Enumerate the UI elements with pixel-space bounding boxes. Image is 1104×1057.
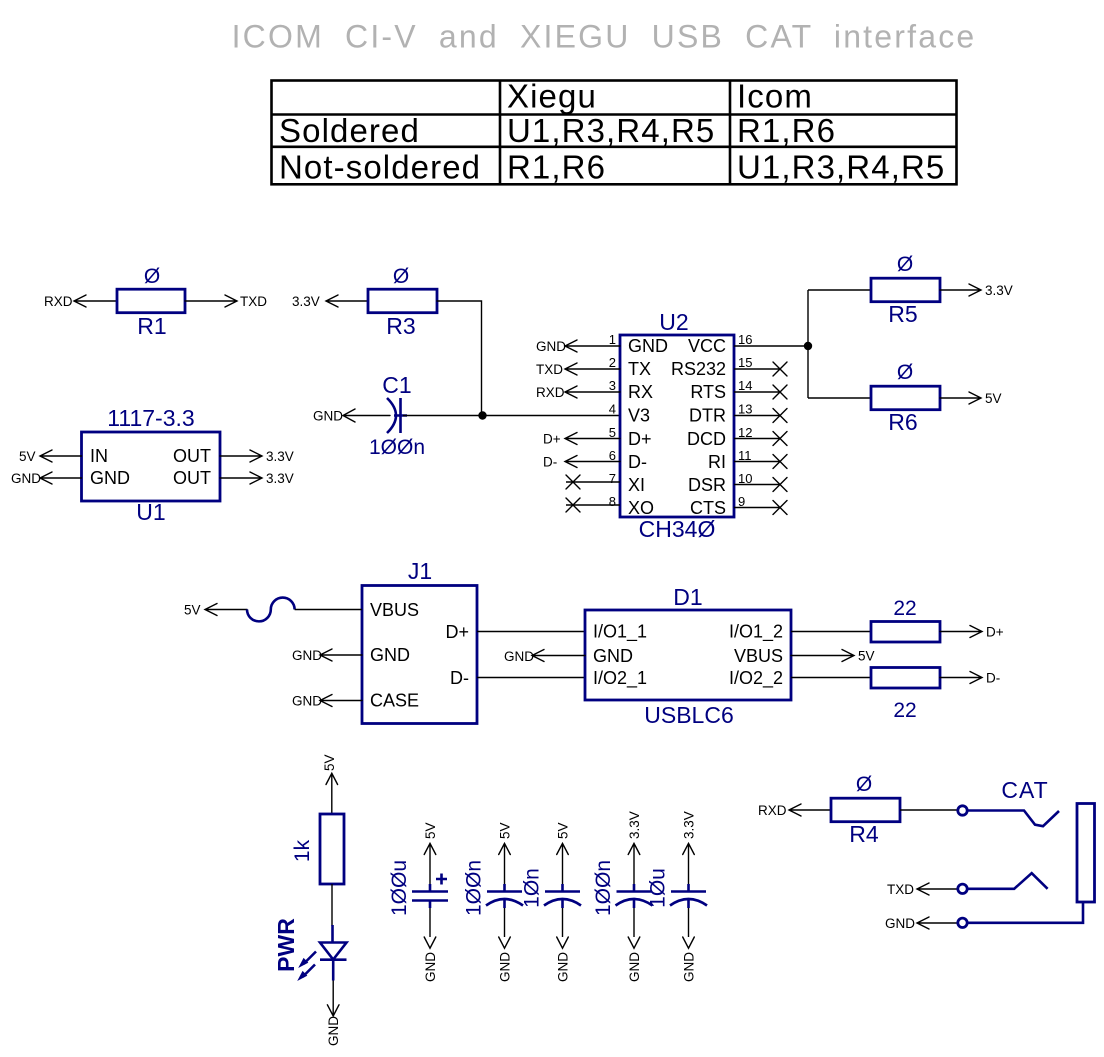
svg-text:4: 4	[609, 402, 616, 417]
resistor R4	[831, 798, 900, 822]
wire	[566, 481, 620, 483]
tip contact	[967, 811, 1059, 827]
svg-text:U1,R3,R4,R5: U1,R3,R4,R5	[737, 149, 945, 186]
svg-text:GND: GND	[681, 952, 696, 982]
svg-text:8: 8	[609, 494, 616, 509]
svg-text:6: 6	[609, 448, 616, 463]
wire	[483, 415, 621, 417]
wire	[562, 908, 564, 937]
wire	[403, 415, 483, 417]
svg-text:XO: XO	[628, 498, 654, 518]
svg-text:3.3V: 3.3V	[266, 449, 294, 464]
svg-text:5V: 5V	[985, 391, 1002, 406]
svg-text:RI: RI	[708, 452, 726, 472]
svg-text:13: 13	[738, 402, 752, 417]
svg-text:GND: GND	[326, 1016, 341, 1046]
wire VCC pin16	[734, 345, 808, 347]
svg-text:1ØØu: 1ØØu	[388, 860, 411, 916]
svg-text:R1: R1	[137, 313, 166, 339]
wire	[437, 301, 482, 416]
wire	[40, 472, 82, 484]
wire	[326, 295, 368, 307]
no-connect pin12	[773, 432, 787, 446]
svg-text:OUT: OUT	[173, 446, 211, 466]
svg-text:RXD: RXD	[536, 385, 565, 400]
ground arrow down	[683, 937, 695, 948]
svg-text:16: 16	[738, 332, 752, 347]
svg-text:GND: GND	[628, 336, 668, 356]
power arrow up	[628, 843, 640, 884]
sleeve contact	[967, 902, 1083, 923]
svg-text:GND: GND	[555, 952, 570, 982]
svg-text:D-: D-	[986, 671, 1000, 686]
svg-text:D-: D-	[450, 668, 469, 688]
wire	[205, 604, 247, 616]
svg-text:CAT: CAT	[1001, 777, 1048, 803]
svg-text:R1,R6: R1,R6	[737, 112, 836, 149]
svg-text:Ø: Ø	[897, 253, 913, 276]
svg-text:OUT: OUT	[173, 468, 211, 488]
svg-text:5V: 5V	[858, 649, 875, 664]
svg-text:CASE: CASE	[370, 691, 419, 711]
svg-text:VBUS: VBUS	[734, 646, 783, 666]
svg-text:RS232: RS232	[671, 359, 726, 379]
IC U2 CH340	[620, 335, 734, 517]
svg-text:R3: R3	[386, 313, 415, 339]
svg-text:GND: GND	[292, 648, 322, 663]
regulator U1 1117-3.3	[82, 432, 221, 501]
svg-text:GND: GND	[90, 468, 130, 488]
svg-text:1117-3.3: 1117-3.3	[107, 405, 194, 431]
wire	[940, 672, 982, 684]
connector J1	[362, 586, 477, 724]
pin circle tip	[958, 806, 967, 815]
wire I/O1_2 to R	[791, 631, 871, 633]
svg-text:GND: GND	[11, 471, 41, 486]
svg-text:5V: 5V	[555, 822, 570, 839]
wire D- J1 to D1	[477, 677, 585, 679]
svg-text:5V: 5V	[423, 822, 438, 839]
svg-text:R5: R5	[888, 301, 917, 327]
svg-text:1k: 1k	[291, 839, 314, 862]
ground arrow down	[499, 937, 511, 948]
svg-text:TXD: TXD	[240, 294, 267, 309]
svg-text:RXD: RXD	[44, 294, 73, 309]
power arrow up	[326, 773, 338, 814]
resistor 1k	[320, 814, 344, 884]
svg-text:D-: D-	[543, 455, 557, 470]
ground arrow down	[327, 1005, 339, 1016]
svg-text:XI: XI	[628, 475, 645, 495]
svg-text:VBUS: VBUS	[370, 600, 419, 620]
svg-text:Soldered: Soldered	[279, 112, 420, 149]
resistor R1	[117, 289, 185, 313]
wire	[734, 368, 780, 370]
svg-text:CH34Ø: CH34Ø	[639, 516, 716, 542]
svg-text:DTR: DTR	[689, 406, 726, 426]
wire VBUS to 5V	[791, 650, 854, 662]
svg-text:15: 15	[738, 355, 752, 370]
table: soldered parts matrix	[272, 78, 957, 186]
svg-text:GND: GND	[504, 649, 534, 664]
wire	[220, 450, 262, 462]
wire	[917, 917, 957, 929]
svg-text:GND: GND	[497, 952, 512, 982]
wire	[565, 386, 620, 398]
wire	[734, 461, 780, 463]
svg-text:GND: GND	[313, 409, 343, 424]
svg-text:D+: D+	[628, 429, 652, 449]
svg-text:U1: U1	[136, 499, 165, 525]
svg-text:3.3V: 3.3V	[681, 811, 696, 839]
wire	[688, 908, 690, 937]
svg-text:GND: GND	[627, 952, 642, 982]
capacitor 100u	[412, 874, 448, 909]
wire	[40, 450, 82, 462]
wire	[185, 295, 237, 307]
wire	[332, 981, 334, 1017]
svg-text:GND: GND	[370, 645, 410, 665]
wire	[565, 363, 620, 375]
svg-text:9: 9	[738, 494, 745, 509]
wire	[917, 883, 957, 895]
svg-text:DCD: DCD	[687, 429, 726, 449]
svg-text:I/O2_1: I/O2_1	[593, 668, 647, 689]
ground arrow down	[628, 937, 640, 948]
svg-text:RXD: RXD	[758, 803, 787, 818]
ground arrow down	[424, 937, 436, 948]
svg-text:3.3V: 3.3V	[985, 283, 1013, 298]
svg-text:D-: D-	[628, 452, 647, 472]
junction VCC	[804, 342, 812, 350]
capacitor 10n	[544, 884, 581, 908]
wire	[633, 908, 635, 937]
wire	[343, 409, 390, 422]
wire D+ J1 to D1	[477, 631, 585, 633]
svg-text:GND: GND	[885, 916, 915, 931]
svg-text:V3: V3	[628, 406, 650, 426]
no-connect pin15	[773, 362, 787, 376]
wire	[532, 650, 585, 662]
svg-text:3.3V: 3.3V	[627, 811, 642, 839]
svg-text:D+: D+	[445, 622, 469, 642]
svg-text:3.3V: 3.3V	[266, 471, 294, 486]
svg-text:Not-soldered: Not-soldered	[279, 149, 481, 186]
svg-text:1ØØn: 1ØØn	[592, 860, 615, 916]
wire	[940, 392, 981, 404]
resistor R5	[871, 278, 940, 302]
no-connect pin7	[566, 475, 580, 489]
svg-text:R1,R6: R1,R6	[507, 149, 606, 186]
resistor R6	[871, 386, 940, 410]
svg-text:5V: 5V	[497, 822, 512, 839]
wire	[74, 295, 117, 307]
svg-text:J1: J1	[408, 558, 432, 584]
svg-text:12: 12	[738, 425, 752, 440]
svg-text:C1: C1	[382, 372, 411, 398]
svg-text:I/O1_1: I/O1_1	[593, 622, 647, 643]
svg-text:R4: R4	[849, 821, 879, 847]
wire	[566, 504, 620, 506]
svg-text:2: 2	[609, 355, 616, 370]
wire	[320, 695, 362, 707]
svg-text:VCC: VCC	[688, 336, 726, 356]
no-connect pin8	[566, 498, 580, 512]
power arrow up	[683, 843, 695, 884]
svg-text:R6: R6	[888, 409, 917, 435]
svg-text:Xiegu: Xiegu	[507, 78, 597, 115]
wire	[789, 804, 831, 816]
svg-text:5V: 5V	[322, 754, 337, 771]
svg-text:1ØØn: 1ØØn	[369, 436, 425, 459]
wire	[734, 391, 780, 393]
no-connect pin10	[773, 478, 787, 492]
wire	[734, 507, 780, 509]
wire	[295, 609, 362, 611]
svg-text:TXD: TXD	[536, 362, 563, 377]
jack barrel	[1077, 804, 1095, 903]
svg-text:D+: D+	[543, 432, 561, 447]
junction	[478, 411, 486, 419]
no-connect pin11	[773, 455, 787, 469]
pin circle sleeve	[958, 918, 967, 927]
power arrow up	[424, 843, 436, 884]
svg-text:CTS: CTS	[690, 498, 726, 518]
svg-text:D+: D+	[986, 625, 1004, 640]
svg-text:PWR: PWR	[273, 918, 299, 972]
svg-text:D1: D1	[673, 584, 702, 610]
wire	[734, 484, 780, 486]
resistor 22 (D+)	[871, 622, 940, 643]
svg-text:5V: 5V	[19, 449, 36, 464]
capacitor 10u	[670, 884, 707, 908]
svg-text:1Øu: 1Øu	[647, 868, 670, 908]
wire	[331, 884, 333, 926]
connector CAT jack	[885, 777, 1095, 931]
svg-text:Icom: Icom	[737, 78, 813, 115]
svg-text:IN: IN	[90, 446, 108, 466]
svg-text:DSR: DSR	[688, 475, 726, 495]
svg-text:Ø: Ø	[144, 265, 160, 288]
svg-text:5V: 5V	[184, 603, 201, 618]
wire	[900, 809, 957, 811]
capacitor 100n	[616, 884, 653, 908]
wire	[320, 649, 362, 661]
svg-text:ICOM CI-V and XIEGU USB CAT in: ICOM CI-V and XIEGU USB CAT interface	[232, 19, 977, 55]
wire	[734, 438, 780, 440]
power arrow up	[557, 843, 569, 884]
wire	[565, 433, 620, 445]
svg-text:14: 14	[738, 378, 752, 393]
svg-text:5: 5	[609, 425, 616, 440]
wire	[940, 284, 981, 296]
svg-text:3: 3	[609, 378, 616, 393]
wire	[940, 626, 982, 638]
no-connect pin13	[773, 409, 787, 423]
svg-text:GND: GND	[292, 694, 322, 709]
svg-text:1ØØn: 1ØØn	[463, 860, 486, 916]
svg-text:USBLC6: USBLC6	[644, 702, 733, 728]
svg-text:U2: U2	[659, 309, 688, 335]
svg-text:RTS: RTS	[690, 382, 726, 402]
svg-text:TXD: TXD	[887, 882, 914, 897]
capacitor C1	[387, 398, 407, 433]
capacitor 100n	[486, 884, 523, 908]
wire	[734, 415, 780, 417]
resistor R3	[368, 289, 437, 313]
wire	[565, 340, 620, 352]
power arrow up	[499, 843, 511, 884]
svg-text:7: 7	[609, 471, 616, 486]
svg-text:GND: GND	[593, 646, 633, 666]
svg-text:I/O1_2: I/O1_2	[729, 622, 783, 643]
wire	[808, 290, 871, 398]
diode array D1 USBLC6	[585, 610, 791, 700]
svg-text:11: 11	[738, 448, 752, 463]
svg-text:3.3V: 3.3V	[292, 294, 320, 309]
svg-text:10: 10	[738, 471, 752, 486]
svg-text:TX: TX	[628, 359, 651, 379]
svg-text:1: 1	[609, 332, 616, 347]
wire	[565, 456, 620, 468]
wire	[504, 908, 506, 937]
svg-text:22: 22	[893, 597, 916, 620]
ground arrow down	[557, 937, 569, 948]
ring contact	[967, 873, 1047, 889]
net jumper wave	[247, 598, 295, 622]
svg-text:22: 22	[893, 699, 916, 722]
no-connect pin9	[773, 501, 787, 515]
wire	[429, 908, 431, 937]
svg-text:I/O2_2: I/O2_2	[729, 668, 783, 689]
pin circle ring	[958, 884, 967, 893]
wire I/O2_2 to R	[791, 677, 871, 679]
svg-text:1Øn: 1Øn	[521, 868, 544, 908]
svg-text:GND: GND	[423, 952, 438, 982]
resistor 22 (D-)	[871, 668, 940, 689]
svg-text:Ø: Ø	[856, 773, 872, 796]
svg-text:GND: GND	[536, 339, 566, 354]
svg-text:RX: RX	[628, 382, 653, 402]
LED PWR	[298, 925, 346, 981]
svg-text:U1,R3,R4,R5: U1,R3,R4,R5	[507, 112, 715, 149]
svg-text:Ø: Ø	[897, 361, 913, 384]
svg-text:Ø: Ø	[393, 265, 409, 288]
wire	[220, 472, 262, 484]
no-connect pin14	[773, 385, 787, 399]
